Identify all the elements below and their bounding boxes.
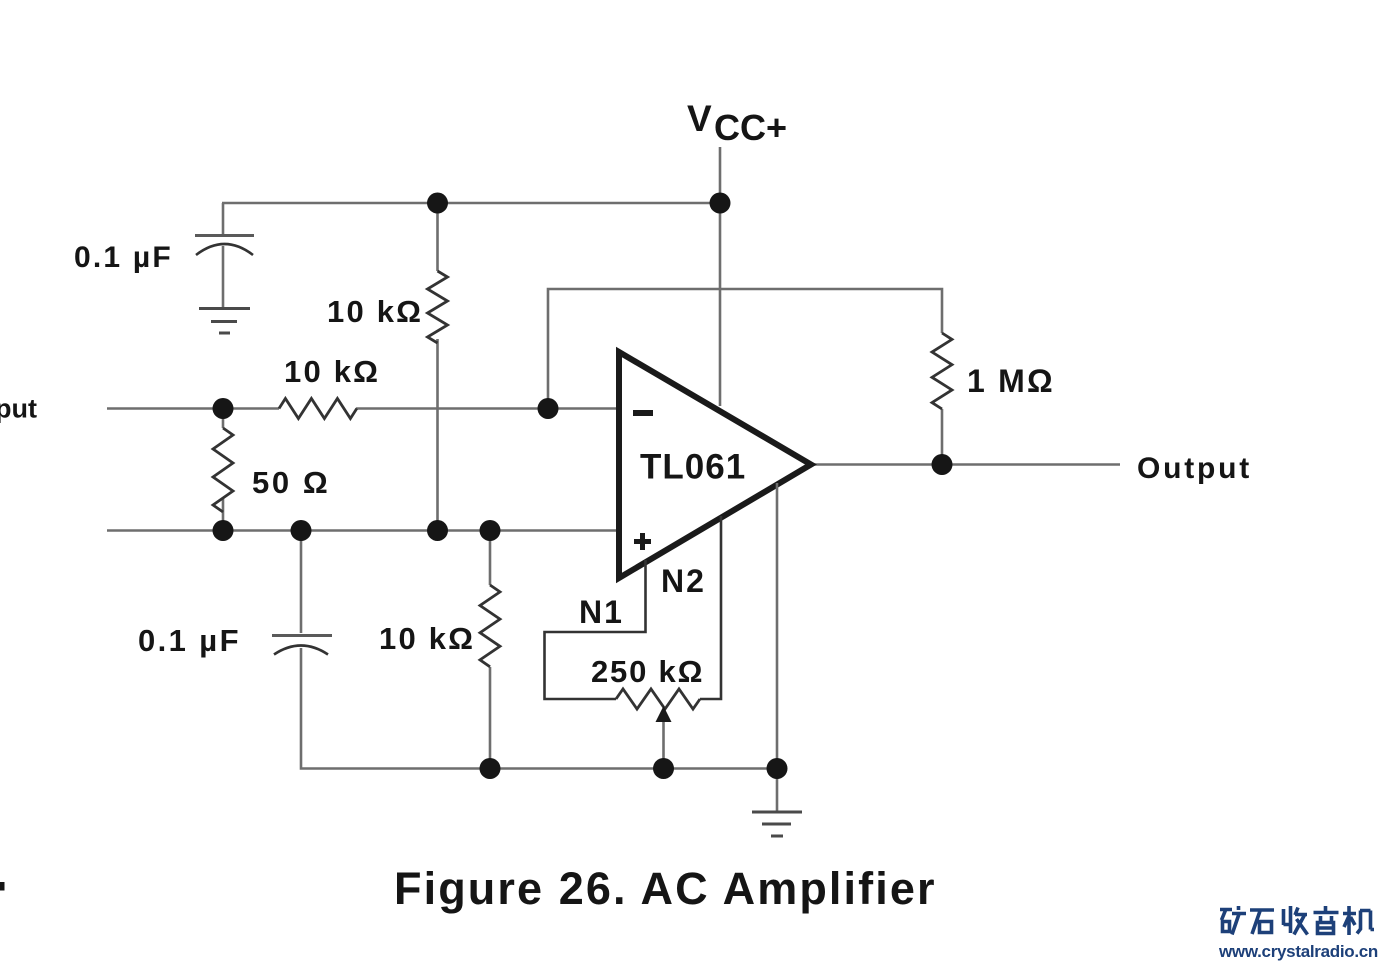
junction node dot wiper (653, 758, 674, 779)
wire wiper stem (662, 720, 665, 769)
svg-text:0.1 µF: 0.1 µF (138, 623, 241, 658)
resistor R5 1 MOhm vertical body (932, 333, 952, 409)
pin VCC- wire from op-amp bottom edge to ground rail (776, 483, 779, 769)
svg-text:Output: Output (1137, 452, 1252, 485)
junction node dot R1 bottom (427, 520, 448, 541)
wire C1 bottom lead to ground (222, 246, 225, 308)
potentiometer R6 250 kOhm body (616, 689, 700, 709)
wire 1M ohm bottom to output node (941, 409, 944, 464)
wire C2 top lead (300, 531, 303, 634)
svg-text:250 kΩ: 250 kΩ (591, 654, 704, 689)
capacitor C1 0.1uF flat plate (195, 234, 254, 237)
svg-text:CC+: CC+ (714, 107, 787, 148)
junction node dot R4 bottom (480, 758, 501, 779)
wire VCC+ vertical from label to op-amp top edge (719, 147, 722, 406)
svg-text:1 MΩ: 1 MΩ (967, 363, 1055, 399)
op-amp U1 TL061 triangle (619, 352, 811, 578)
resistor R1 10 kOhm vertical body (428, 271, 448, 343)
resistor R3 50 Ohm vertical body (213, 428, 233, 512)
ground symbol under C1 (199, 309, 250, 334)
svg-text:V: V (687, 98, 712, 139)
junction node dot R3 bottom (213, 520, 234, 541)
svg-text:10 kΩ: 10 kΩ (284, 354, 380, 389)
wire R4 leads (489, 531, 492, 769)
resistor R4 10 kOhm vertical body (480, 585, 500, 667)
resistor R2 10 kOhm horizontal body (279, 399, 357, 419)
wire inverting input line left segment (107, 407, 279, 410)
svg-text:Input: Input (0, 394, 37, 424)
op-amp plus sign (634, 533, 651, 550)
wire ground lead below bottom rail (776, 769, 779, 813)
junction node dot R4 top (480, 520, 501, 541)
stray mark at left edge (0, 882, 5, 891)
wire C2 bottom lead and bottom rail (301, 648, 777, 769)
svg-text:N1: N1 (579, 594, 624, 630)
svg-text:10 kΩ: 10 kΩ (327, 294, 423, 329)
svg-text:TL061: TL061 (640, 448, 746, 487)
svg-text:www.crystalradio.cn: www.crystalradio.cn (1218, 942, 1378, 961)
pin N2 wire from op-amp bottom edge to pot right end (700, 516, 721, 699)
junction node dot ground rail (767, 758, 788, 779)
wire C1 top lead (222, 203, 225, 234)
svg-text:Figure 26. AC Amplifier: Figure 26. AC Amplifier (394, 863, 937, 914)
capacitor C2 0.1uF flat plate (272, 634, 332, 637)
svg-text:50 Ω: 50 Ω (252, 465, 330, 500)
svg-text:N2: N2 (661, 563, 706, 599)
junction node dot output (932, 454, 953, 475)
wire non-inverting input line (107, 529, 619, 532)
wire R1 body vertical (VCC divider to + line) (436, 203, 439, 531)
wire inverting input line right segment to op-amp (356, 407, 619, 410)
wire output (811, 463, 1120, 466)
junction node dot input/R3 (213, 398, 234, 419)
svg-text:10 kΩ: 10 kΩ (379, 621, 475, 656)
pin N1 wire from op-amp bottom edge to pot left end (545, 560, 646, 699)
capacitor C1 curved plate (196, 244, 253, 255)
junction node dot feedback/inverting (538, 398, 559, 419)
ground symbol at VCC- rail (752, 812, 802, 836)
svg-text:0.1 µF: 0.1 µF (74, 241, 173, 274)
wire feedback loop top (548, 289, 942, 409)
op-amp minus sign (633, 410, 653, 416)
junction node dot C2 top (291, 520, 312, 541)
watermark logo (stylized CJK) (1220, 906, 1374, 935)
potentiometer wiper arrow head (656, 706, 672, 722)
label VCC+ (687, 98, 787, 148)
wire R3 50 ohm leads (222, 409, 225, 531)
capacitor C2 curved plate (274, 646, 328, 655)
wire top rail from C1 to VCC node (222, 202, 720, 205)
junction node dot VCC (710, 193, 731, 214)
junction node dot top rail left (427, 193, 448, 214)
